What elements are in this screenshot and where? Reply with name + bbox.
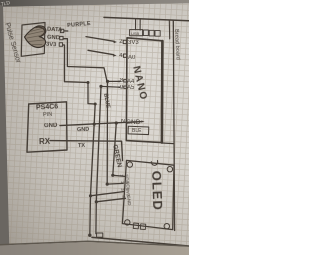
label TX on wire <box>78 142 85 148</box>
OLED mounting hole bottom-right <box>164 224 169 229</box>
label 3V3 pulse <box>46 41 57 48</box>
OLED pin numbers column <box>119 174 124 177</box>
OLED mounting hole top-right <box>167 167 172 172</box>
wire B (A5) down page with branch to OLED pin4 <box>96 86 101 233</box>
NANO bottom-right connector to breadboard edge <box>162 142 174 145</box>
NANO pin9 tick <box>124 86 127 88</box>
label RX <box>38 136 49 145</box>
label OLED rotated <box>149 170 165 211</box>
NANO pin2 tick <box>123 40 126 43</box>
label PS4C6 <box>36 103 59 111</box>
NANO U2 outline <box>126 38 162 143</box>
pulse sensor U1 box <box>21 23 45 57</box>
label BLE <box>132 128 141 134</box>
breadboard corner tick <box>168 20 170 39</box>
junction dot D corner <box>111 174 114 177</box>
NANO USB connector box <box>130 30 143 36</box>
OLED pin label GND <box>126 195 132 206</box>
label USB <box>131 31 139 36</box>
label BLUE rotated <box>102 93 111 109</box>
label GND on wire <box>77 127 89 133</box>
pulse sensor pin GND tick <box>60 36 63 39</box>
label GREEN rotated <box>111 144 123 168</box>
NANO small component box <box>143 30 148 36</box>
PS4C6 printer U3 box <box>27 102 67 152</box>
OLED bottom pin box <box>140 224 145 230</box>
wire A down page with branch to OLED pin3 <box>90 104 95 235</box>
junction dot GND/OLED-D <box>115 121 118 124</box>
junction dot <box>87 81 90 84</box>
wire DATA stub <box>64 30 68 32</box>
label 4 A0 <box>119 53 122 59</box>
OLED pin label SDA <box>124 174 130 184</box>
bottom rail line <box>92 237 189 246</box>
label PURPLE <box>67 21 91 29</box>
OLED mounting hole bottom-left <box>125 220 130 225</box>
dark table surround drawn last <box>0 0 189 255</box>
wire A bottom terminal dot <box>88 234 91 237</box>
label 8 A4 <box>120 78 123 84</box>
NANO right edge heavy stroke <box>161 41 164 143</box>
pulse sensor heart symbol (tip left, lobes right) <box>25 26 46 48</box>
wire pulse 3V3: down, right, down, right, down chain <box>63 45 96 104</box>
wire C (A4) down to OLED pin2 <box>107 81 123 184</box>
paper bottom edge shadow line <box>0 241 189 246</box>
NANO pin4 tick <box>123 54 126 57</box>
label Pulse Sensor <box>3 22 21 64</box>
OLED U4 module outline <box>122 160 174 229</box>
NANO small component box <box>149 30 154 36</box>
pulse sensor pin DATA tick <box>60 29 63 32</box>
label PIN <box>43 111 52 117</box>
heart shading streaks <box>27 29 44 45</box>
label DATA <box>47 26 63 33</box>
PS4C6 GND pin wire to NANO GND <box>60 122 142 126</box>
BLE box inside NANO <box>128 126 149 134</box>
label GND pulse <box>46 34 59 41</box>
wire B bottom terminal box <box>97 233 103 237</box>
OLED mounting hole top-left <box>127 162 132 167</box>
NANO pin8 tick <box>124 80 127 82</box>
pulse sensor pin 3V3 tick <box>59 43 62 46</box>
junction dot GND/OLED-A <box>93 123 96 126</box>
NANO USB cable lines <box>136 19 141 31</box>
wire purple to NANO pin4 A0 <box>88 50 114 54</box>
junction dot <box>94 103 97 106</box>
PS4C6 RX pin wire TX <box>50 141 123 161</box>
OLED pin label 3V3 <box>125 188 131 197</box>
wire A4 junction to pin8 <box>108 80 120 82</box>
breadboard right edge wire <box>173 20 174 230</box>
OLED bottom pin box <box>133 223 138 229</box>
NANO small component box <box>155 31 160 37</box>
breadboard top edge <box>104 17 189 20</box>
wire A5 junction to pin9 <box>101 85 120 88</box>
wire pulse GND: down, right, down to A4 junction <box>63 39 107 82</box>
wire B branch stub to OLED pin4 <box>96 198 125 202</box>
OLED top notch <box>151 161 157 166</box>
label GND inside PS4C6 <box>44 122 58 128</box>
wire A branch stub to OLED pin3 <box>91 192 124 196</box>
label NANO rotated <box>130 65 149 102</box>
label 9 A5 <box>120 85 123 91</box>
label Breadboard rotated <box>173 29 181 60</box>
label 2 3V3 <box>119 39 122 45</box>
junction dot C corner <box>106 183 109 186</box>
OLED pin label SCL <box>125 181 131 190</box>
wire purple DATA to NANO pin2 <box>86 37 114 42</box>
wire D (GND junction) down to OLED pin1 <box>113 123 125 176</box>
label N GND nano <box>121 119 125 125</box>
